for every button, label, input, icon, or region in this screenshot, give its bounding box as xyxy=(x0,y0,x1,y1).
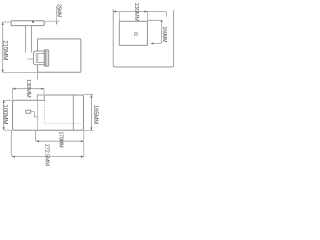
svg-text:160MM: 160MM xyxy=(161,27,167,43)
front view: left extension above box xyxy=(12,88,14,101)
dim 25MM line xyxy=(56,6,58,25)
svg-text:272.5MM: 272.5MM xyxy=(44,144,50,166)
dim 25MM extension line xyxy=(44,20,59,22)
dim 170MM line with left elbow xyxy=(36,130,84,141)
dim 130MM line (front view) xyxy=(13,88,45,90)
dim 272.5MM line with left elbow xyxy=(11,130,84,156)
top view: outer footprint xyxy=(113,9,173,67)
top view: head square xyxy=(119,21,147,45)
dim 130MM line with elbow xyxy=(113,12,166,17)
side view: hinge knob knurl lines xyxy=(45,50,47,66)
front view: interior plug symbol xyxy=(26,110,31,113)
top view: center hole xyxy=(134,32,137,35)
svg-text:215MM: 215MM xyxy=(1,40,8,60)
dim 215MM bottom extension xyxy=(3,72,38,74)
svg-text:130MM: 130MM xyxy=(133,2,139,21)
dim 215MM top extension xyxy=(3,21,12,23)
side view: hinge pin line xyxy=(27,58,33,60)
svg-text:100MM: 100MM xyxy=(1,104,8,124)
side view: head box xyxy=(38,39,81,72)
svg-text:25MM: 25MM xyxy=(55,4,61,17)
dim 165MM extensions xyxy=(83,94,93,96)
side view: plate screw mark xyxy=(32,21,34,23)
side view: stem lines xyxy=(25,26,27,53)
front view: interior dashed axis xyxy=(44,95,81,124)
svg-text:165MM: 165MM xyxy=(92,105,98,124)
shared right extension below box xyxy=(83,130,85,156)
top view: head square extension left xyxy=(118,12,120,22)
side view: hinge centerline xyxy=(36,45,38,80)
side view: hinge inner edge line xyxy=(35,53,37,63)
side view: mounting plate xyxy=(11,21,44,26)
front view: body outline with stepped top xyxy=(13,95,84,130)
front view: right extension of 130 dim xyxy=(43,88,45,95)
dim 215MM line xyxy=(2,22,4,73)
top view: head square extension right xyxy=(146,12,148,22)
front view: plug cord with elbow xyxy=(31,112,38,117)
dim 160MM leader xyxy=(147,20,161,43)
side view: hinge knob xyxy=(44,50,48,66)
front view: knob base xyxy=(37,95,44,100)
side view: hinge bracket xyxy=(33,51,44,65)
front view: interior centerline xyxy=(37,101,39,131)
svg-text:130MM: 130MM xyxy=(25,79,31,98)
dim 100MM line xyxy=(3,100,5,130)
svg-text:170MM: 170MM xyxy=(58,132,64,148)
dim 100MM extensions xyxy=(4,99,13,101)
side view: hinge inner plate xyxy=(38,53,45,62)
dim 165MM line xyxy=(90,95,92,131)
front view: end-cap divide line xyxy=(72,95,74,130)
